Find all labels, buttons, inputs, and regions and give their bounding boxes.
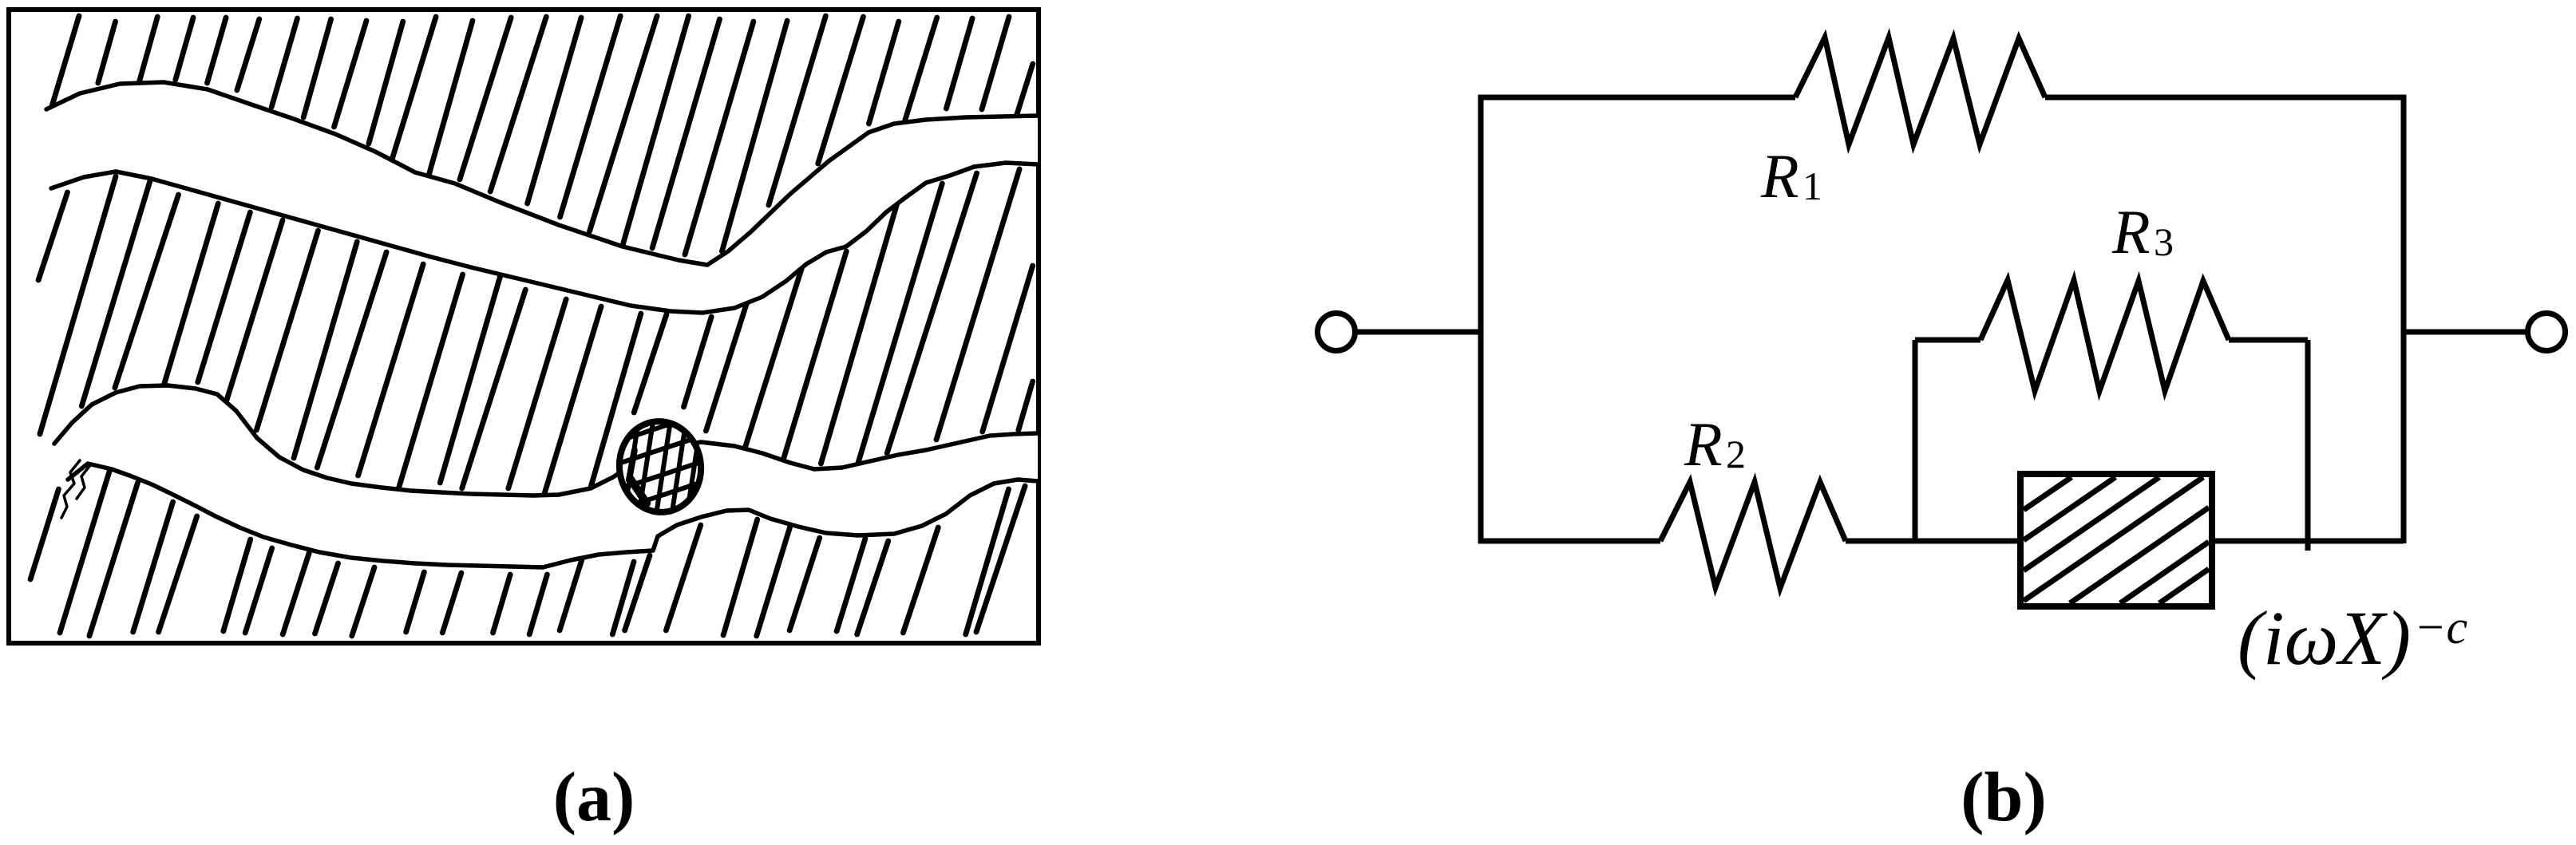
blockage particle (cross-hatched blob) <box>586 402 721 537</box>
wire: left bus <box>1478 95 1484 543</box>
resistor R2 <box>1660 482 1846 588</box>
wire: right bus <box>2401 95 2407 543</box>
crack channel 1 (upper) white band <box>46 82 1038 313</box>
crack channel 2 (lower) white band <box>54 385 1038 567</box>
terminal left <box>1318 314 1355 351</box>
svg-text:2: 2 <box>1726 432 1746 476</box>
crack channel 2 upper edge <box>54 385 1038 496</box>
wire: bottom rail left <box>1478 539 1660 544</box>
crack tail squiggle A <box>61 460 80 518</box>
crack channel 1 lower edge <box>51 163 1038 313</box>
svg-text:R: R <box>2111 197 2151 267</box>
wire: top rail left <box>1478 95 1795 101</box>
resistor R3 <box>1980 280 2229 391</box>
panel border frame <box>9 10 1039 643</box>
wire: top rail right <box>2045 95 2406 101</box>
crack channel 2 lower edge <box>68 464 1038 567</box>
crack tail squiggle B <box>77 465 90 499</box>
svg-text:R: R <box>1684 409 1723 479</box>
svg-text:(b): (b) <box>1961 759 2047 836</box>
svg-text:3: 3 <box>2154 219 2174 264</box>
wire: inner loop left riser <box>1913 340 1918 541</box>
svg-text:(a): (a) <box>553 759 635 836</box>
svg-text:R: R <box>1760 141 1799 211</box>
wire: inner top rail left <box>1915 338 1980 343</box>
wire: inner loop right riser <box>2305 340 2311 551</box>
svg-text:(iωX): (iωX) <box>2238 595 2411 681</box>
svg-text:1: 1 <box>1802 164 1822 208</box>
wire: left terminal to left bus <box>1355 330 1481 335</box>
terminal right <box>2528 314 2566 351</box>
wire: bottom rail right <box>2209 539 2404 544</box>
panel (b) equivalent circuit <box>1318 38 2566 588</box>
wire: right bus to right terminal <box>2404 330 2527 335</box>
CPE box hatching <box>2024 477 2209 603</box>
wire: inner top rail right <box>2229 338 2308 343</box>
matrix hatching <box>30 16 1033 636</box>
resistor R1 <box>1795 38 2045 144</box>
svg-text:−c: −c <box>2414 601 2467 653</box>
constant-phase element box <box>2020 474 2212 606</box>
crack channel 1 upper edge <box>46 82 1038 265</box>
wire: bottom rail middle <box>1846 539 2024 544</box>
